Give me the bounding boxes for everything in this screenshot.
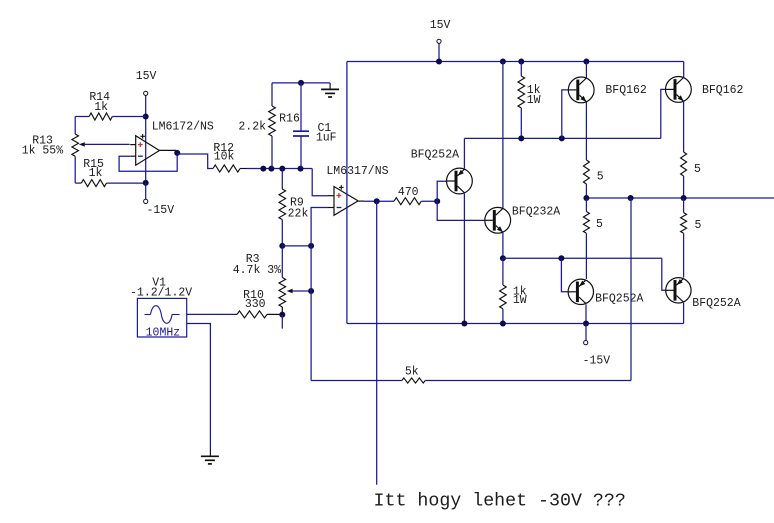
transistor Q1 BFQ252A (PNP driver, top) xyxy=(447,168,473,194)
potentiometer R13 1k 55% xyxy=(74,117,76,135)
resistor 1k 1W (upper) xyxy=(520,62,522,77)
power terminal 15V (top) xyxy=(437,39,441,43)
svg-text:5: 5 xyxy=(694,163,701,176)
resistor R12 10k xyxy=(213,165,240,172)
junction: R14 right / supply xyxy=(143,114,149,120)
junction: 470 output / driver bases xyxy=(434,198,440,204)
R3 wiper arrow xyxy=(287,289,293,293)
svg-text:5: 5 xyxy=(694,219,701,232)
top supply rail 15V xyxy=(347,61,684,63)
wire: Q3 collector xyxy=(585,62,587,79)
output line xyxy=(586,197,774,199)
transistor Q2 BFQ232A (NPN) xyxy=(485,207,511,233)
junction: -15V node on bottom rail xyxy=(583,321,589,327)
junction: U2 output node xyxy=(374,198,380,204)
junction: C1 bottom xyxy=(298,166,304,172)
voltage source V1 -1.2/1.2V 10MHz xyxy=(137,298,186,337)
junction: Q2 emitter node xyxy=(500,255,506,261)
wire: Q4 base xyxy=(661,89,666,138)
transistor Q4 BFQ162 (NPN, top right) xyxy=(666,77,692,103)
U2 non-inverting + mark (red) xyxy=(337,195,342,197)
capacitor C1 1uF xyxy=(300,83,302,131)
svg-text:-15V: -15V xyxy=(146,204,174,217)
wire: U2 output xyxy=(364,200,394,202)
wire: Q5 base xyxy=(561,258,568,292)
resistor 1k 1W (lower) xyxy=(502,258,504,285)
wire: inverting column down to 5k feedback xyxy=(310,246,312,381)
U1 power + mark xyxy=(140,135,145,137)
resistor R9 22k xyxy=(281,169,283,189)
U1 inverting - mark xyxy=(138,155,143,157)
U1 non-inverting + mark (red) xyxy=(138,144,143,146)
junction: R9 bottom / R3 top xyxy=(279,243,285,249)
resistor R15 1k (feedback bottom) xyxy=(75,182,81,184)
wire: dangling vertical from U2 output (queried node) xyxy=(376,201,378,485)
svg-text:BFQ252A: BFQ252A xyxy=(411,149,459,162)
wire: Q3 emitter down through 5 ohm xyxy=(585,102,587,160)
junction: 15V stem on rail xyxy=(436,59,442,65)
transistor Q6 BFQ252A (PNP, bottom right) xyxy=(666,278,691,303)
left rail of output stage xyxy=(346,62,348,324)
resistor 5 (upper left) xyxy=(583,160,589,184)
svg-text:10MHz: 10MHz xyxy=(146,326,181,339)
junction: inverting node xyxy=(308,243,314,249)
wire: base drive line (Q1 emitter to Q4 base) xyxy=(464,137,660,139)
junction: Q3 collector on top rail xyxy=(583,59,589,65)
wire: lower base drive line xyxy=(503,257,662,259)
junction: 1k1W bottom on base line xyxy=(518,135,524,141)
R13 wiper arrow xyxy=(79,142,85,146)
svg-text:22k: 22k xyxy=(288,207,309,220)
wire: Q6 base xyxy=(662,258,666,290)
bottom rail -15V xyxy=(347,323,684,325)
wire: Q2 emitter down xyxy=(502,233,504,258)
svg-text:4.7k 3%: 4.7k 3% xyxy=(233,264,281,277)
svg-text:15V: 15V xyxy=(430,19,451,32)
junction: wiper node xyxy=(308,288,314,294)
resistor 5 (upper right) xyxy=(681,152,687,176)
svg-text:10k: 10k xyxy=(214,151,235,164)
wire: Q1 emitter up to base line xyxy=(463,138,465,168)
svg-text:-1.2/1.2V: -1.2/1.2V xyxy=(130,287,192,300)
svg-text:1k: 1k xyxy=(89,167,103,180)
wire: top rail corner down to Q4 collector xyxy=(683,62,685,78)
ground (bottom, V1) xyxy=(209,449,211,456)
junction dot (R12 node) xyxy=(260,166,266,172)
resistor R14 1k (feedback top) xyxy=(75,116,89,118)
resistor 5k feedback xyxy=(311,380,402,382)
junction: left 5 ohm column on output xyxy=(583,195,589,201)
junction: Q2 collector on top rail xyxy=(500,59,506,65)
wire: to Q1 base xyxy=(437,181,446,201)
junction: R15 / -15V supply xyxy=(143,180,149,186)
U2 output pin stub xyxy=(358,200,364,202)
power terminal 15V (left op-amp supply) xyxy=(144,91,148,95)
junction: feedback tap on output xyxy=(628,195,634,201)
wire: R3 wiper to inverting node column xyxy=(292,290,311,292)
wire: Q5 collector to bottom rail xyxy=(585,304,587,323)
U2 power + mark xyxy=(339,186,344,188)
wire: row to U2 non-inverting input xyxy=(312,169,328,196)
junction: 1k1W lower on bottom rail xyxy=(500,321,506,327)
svg-text:BFQ162: BFQ162 xyxy=(702,84,744,97)
wire: dangling stub below R3 bottom xyxy=(281,315,283,329)
wire: V1 negative lead to ground xyxy=(187,324,211,450)
svg-text:1k: 1k xyxy=(94,101,108,114)
junction: Q3 base tap xyxy=(559,135,565,141)
svg-text:BFQ162: BFQ162 xyxy=(605,84,647,97)
svg-text:-15V: -15V xyxy=(583,355,611,368)
junction: R9 top xyxy=(279,166,285,172)
U1 output pin stub xyxy=(159,149,176,151)
wire: stem to -15V terminal xyxy=(585,324,587,341)
wire: Q6 collector to bottom rail corner xyxy=(683,303,685,324)
wire: Q1 collector to bottom rail xyxy=(463,194,465,324)
op-amp U2 LM6317/NS xyxy=(334,187,358,216)
svg-text:15V: 15V xyxy=(136,70,157,83)
U2 inverting - mark xyxy=(337,207,342,209)
wire: to Q2 base xyxy=(437,201,485,220)
svg-text:2.2k: 2.2k xyxy=(238,120,266,133)
junction: U1 output node xyxy=(174,150,180,156)
wire: stem to -15V terminal (left) xyxy=(145,183,147,199)
svg-text:5: 5 xyxy=(596,218,603,231)
resistor 5 (lower left) xyxy=(585,198,587,212)
svg-text:R16: R16 xyxy=(279,113,300,126)
junction: right 5 ohm column on output xyxy=(681,195,687,201)
wire: U1 inverting input feedback loop xyxy=(119,153,177,171)
wire: 15V stem xyxy=(438,43,440,61)
op-amp U1 LM6172/NS xyxy=(136,136,160,166)
potentiometer R3 4.7k 3% xyxy=(281,246,283,278)
power terminal -15V (bottom) xyxy=(584,341,588,345)
wire: R16 top to ground xyxy=(272,82,330,84)
wire: U2 inverting input xyxy=(311,208,328,246)
wire: Q4 emitter down through 5 ohm xyxy=(683,101,685,152)
resistor R16 2.2k xyxy=(271,136,273,169)
wire: summing node row xyxy=(247,168,312,170)
svg-text:1k 55%: 1k 55% xyxy=(22,145,64,158)
svg-text:LM6317/NS: LM6317/NS xyxy=(326,165,388,178)
junction: Q1 collector on bottom rail xyxy=(461,321,467,327)
transistor Q3 BFQ162 (NPN, top left) xyxy=(568,77,594,103)
ground (top, R16/C1) xyxy=(329,83,331,90)
wire: left op-amp vertical supply rail through U1 xyxy=(145,117,147,183)
wire: Q3 base xyxy=(562,90,569,138)
wire: feedback riser to output line xyxy=(630,198,632,381)
power terminal -15V (left op-amp supply) xyxy=(144,199,148,203)
U2 input pin stubs xyxy=(328,195,334,197)
svg-text:1W: 1W xyxy=(527,94,541,107)
junction: 1k 1W (upper) on top rail xyxy=(518,59,524,65)
resistor 5 (lower right) xyxy=(683,198,685,213)
svg-text:Itt hogy lehet -30V ???: Itt hogy lehet -30V ??? xyxy=(374,492,626,512)
wire: U1 output to R12 xyxy=(177,154,213,169)
resistor R 470 xyxy=(394,198,421,205)
wire: Q2 collector to top rail xyxy=(502,62,504,209)
svg-text:BFQ232A: BFQ232A xyxy=(512,206,560,219)
transistor Q5 BFQ252A (PNP, bottom left) xyxy=(568,279,593,304)
svg-text:1W: 1W xyxy=(513,294,527,307)
resistor R10 330 xyxy=(187,313,237,315)
svg-text:470: 470 xyxy=(398,186,419,199)
junction: R16 bottom xyxy=(268,166,274,172)
wire: R9 bottom to inverting node xyxy=(282,245,311,247)
U1 input pin stubs xyxy=(130,144,136,146)
svg-text:5k: 5k xyxy=(405,366,419,379)
svg-text:BFQ252A: BFQ252A xyxy=(692,297,740,310)
junction: C1 top xyxy=(298,80,304,86)
svg-text:330: 330 xyxy=(245,298,266,311)
svg-text:1uF: 1uF xyxy=(316,131,337,144)
svg-text:5: 5 xyxy=(597,170,604,183)
svg-text:LM6172/NS: LM6172/NS xyxy=(152,121,214,134)
junction: R3 bottom / R10 xyxy=(279,312,285,318)
svg-text:BFQ252A: BFQ252A xyxy=(595,292,643,305)
wire: top-left +15V stem to supply rail xyxy=(145,95,147,116)
junction: Q5 base tap xyxy=(558,255,564,261)
